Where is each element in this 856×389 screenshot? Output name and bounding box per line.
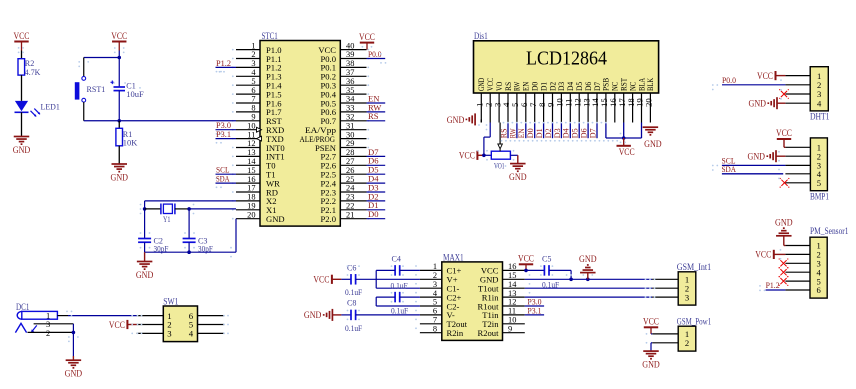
svg-text:32: 32 [346, 113, 354, 122]
svg-text:LCD12864: LCD12864 [526, 49, 607, 70]
svg-text:8: 8 [433, 324, 437, 333]
svg-text:GND: GND [775, 217, 793, 227]
svg-text:1: 1 [251, 41, 255, 50]
svg-text:D0: D0 [531, 82, 540, 91]
svg-text:3: 3 [433, 280, 437, 289]
svg-text:VO: VO [495, 82, 504, 91]
svg-text:9: 9 [251, 113, 255, 122]
svg-text:P3.1: P3.1 [216, 129, 231, 139]
svg-text:P1.2: P1.2 [766, 280, 780, 290]
svg-text:16: 16 [508, 262, 516, 271]
svg-text:10K: 10K [123, 138, 138, 148]
svg-text:24: 24 [346, 184, 355, 193]
svg-text:SDA: SDA [722, 164, 737, 174]
svg-text:BLK: BLK [646, 78, 655, 91]
svg-text:39: 39 [346, 50, 354, 59]
svg-text:33: 33 [346, 104, 354, 113]
svg-text:3: 3 [46, 320, 50, 329]
svg-text:15: 15 [508, 271, 516, 280]
svg-text:26: 26 [346, 166, 354, 175]
svg-text:21: 21 [346, 210, 354, 219]
svg-text:6: 6 [251, 86, 255, 95]
svg-text:2: 2 [433, 271, 437, 280]
svg-text:VCC: VCC [486, 77, 495, 91]
svg-text:28: 28 [346, 148, 354, 157]
svg-text:9: 9 [508, 324, 512, 333]
svg-text:Dis1: Dis1 [474, 31, 488, 41]
svg-text:DHT1: DHT1 [810, 112, 830, 122]
svg-text:D0: D0 [368, 209, 379, 219]
svg-text:D7: D7 [593, 82, 602, 91]
svg-text:22: 22 [346, 202, 354, 211]
svg-text:7: 7 [433, 316, 437, 325]
svg-text:RW: RW [513, 82, 522, 91]
svg-text:17: 17 [247, 184, 255, 193]
svg-text:GND: GND [644, 139, 662, 149]
svg-text:0.1uF: 0.1uF [391, 306, 408, 316]
svg-text:NC: NC [628, 81, 637, 91]
svg-text:GND: GND [579, 254, 597, 264]
svg-text:37: 37 [346, 68, 354, 77]
svg-text:D5: D5 [575, 82, 584, 91]
svg-text:12: 12 [508, 298, 516, 307]
svg-text:4.7K: 4.7K [25, 67, 41, 77]
svg-text:27: 27 [346, 157, 354, 166]
svg-text:6: 6 [433, 307, 437, 316]
svg-text:3: 3 [167, 329, 172, 339]
svg-text:GND: GND [642, 360, 660, 370]
svg-text:C8: C8 [347, 297, 357, 307]
svg-text:6: 6 [816, 285, 821, 295]
svg-text:SW1: SW1 [163, 296, 178, 306]
svg-text:4: 4 [189, 329, 194, 339]
svg-text:1: 1 [433, 262, 437, 271]
svg-text:D7: D7 [587, 128, 597, 138]
svg-text:15: 15 [247, 166, 255, 175]
svg-text:SDA: SDA [216, 174, 230, 184]
svg-text:0.1uF: 0.1uF [345, 323, 362, 333]
svg-text:3: 3 [685, 292, 689, 302]
svg-text:VCC: VCC [14, 31, 30, 41]
svg-text:3: 3 [251, 59, 255, 68]
svg-text:D3: D3 [557, 82, 566, 91]
svg-text:BMP1: BMP1 [810, 191, 829, 201]
svg-text:14: 14 [508, 280, 517, 289]
svg-text:31: 31 [346, 121, 354, 130]
svg-text:VCC: VCC [518, 254, 534, 264]
svg-text:D2: D2 [548, 82, 557, 91]
svg-text:VCC: VCC [757, 71, 773, 81]
svg-text:P0.0: P0.0 [722, 75, 736, 85]
svg-text:GND: GND [447, 115, 465, 125]
svg-text:16: 16 [247, 175, 255, 184]
svg-text:2: 2 [685, 338, 689, 348]
svg-text:C5: C5 [542, 253, 552, 263]
svg-text:PM_Sensor1: PM_Sensor1 [810, 226, 849, 236]
svg-text:8: 8 [251, 104, 255, 113]
svg-text:12: 12 [247, 139, 255, 148]
svg-text:C4: C4 [392, 253, 402, 263]
svg-text:EN: EN [522, 82, 531, 91]
svg-text:RST: RST [620, 78, 629, 91]
svg-text:36: 36 [346, 77, 354, 86]
svg-text:PSB: PSB [602, 77, 611, 91]
svg-text:5: 5 [817, 178, 821, 188]
svg-text:RST1: RST1 [87, 84, 106, 94]
svg-text:VCC: VCC [313, 275, 329, 285]
svg-text:5: 5 [433, 298, 437, 307]
svg-text:11: 11 [508, 307, 516, 316]
svg-text:VCC: VCC [643, 317, 659, 327]
svg-text:20: 20 [644, 98, 654, 107]
svg-text:GND: GND [477, 78, 486, 91]
svg-text:RS: RS [504, 81, 513, 91]
svg-text:29: 29 [346, 139, 354, 148]
svg-text:GND: GND [304, 310, 322, 320]
svg-text:10: 10 [247, 121, 255, 130]
svg-text:RS: RS [368, 111, 379, 121]
svg-text:30: 30 [346, 130, 354, 139]
svg-text:BLA: BLA [637, 78, 646, 91]
svg-text:GND: GND [749, 99, 767, 109]
svg-text:VCC: VCC [459, 151, 475, 161]
svg-text:VCC: VCC [776, 128, 792, 138]
svg-text:14: 14 [247, 157, 256, 166]
svg-text:D4: D4 [566, 81, 575, 91]
svg-text:R2in: R2in [447, 328, 464, 338]
svg-text:VCC: VCC [359, 32, 375, 42]
svg-text:P0.0: P0.0 [368, 49, 382, 59]
svg-text:20: 20 [247, 210, 255, 219]
svg-text:19: 19 [247, 202, 255, 211]
svg-text:GND: GND [65, 369, 83, 379]
svg-text:P2.0: P2.0 [320, 214, 336, 224]
svg-text:D1: D1 [539, 82, 548, 91]
svg-text:13: 13 [508, 289, 516, 298]
svg-text:35: 35 [346, 86, 354, 95]
svg-text:GND: GND [13, 145, 31, 155]
svg-text:40: 40 [346, 41, 354, 50]
svg-text:7: 7 [251, 95, 255, 104]
svg-text:GND: GND [136, 270, 154, 280]
svg-text:34: 34 [346, 95, 355, 104]
svg-text:4: 4 [817, 98, 822, 108]
svg-text:VCC: VCC [619, 147, 635, 157]
svg-text:MAX1: MAX1 [443, 252, 464, 262]
svg-text:C6: C6 [347, 263, 357, 273]
svg-text:2: 2 [46, 329, 50, 338]
svg-text:11: 11 [247, 130, 255, 139]
svg-text:LED1: LED1 [41, 101, 60, 111]
svg-text:VCC: VCC [109, 320, 125, 330]
svg-text:10uF: 10uF [126, 89, 144, 99]
svg-text:GND: GND [266, 214, 285, 224]
svg-text:13: 13 [247, 148, 255, 157]
svg-text:38: 38 [346, 59, 354, 68]
svg-text:GSM_Int1: GSM_Int1 [677, 262, 712, 272]
svg-text:0.1uF: 0.1uF [391, 281, 408, 291]
svg-text:5: 5 [251, 77, 255, 86]
svg-text:18: 18 [247, 193, 255, 202]
svg-text:Y1: Y1 [163, 214, 171, 224]
svg-text:R2out: R2out [477, 328, 499, 338]
svg-text:23: 23 [346, 193, 354, 202]
svg-text:GND: GND [111, 173, 129, 183]
svg-text:VCC: VCC [111, 31, 127, 41]
svg-text:STC1: STC1 [262, 31, 279, 41]
svg-text:GND: GND [748, 152, 766, 162]
svg-text:10: 10 [508, 316, 516, 325]
svg-text:P1.2: P1.2 [216, 58, 231, 68]
svg-text:0.1uF: 0.1uF [345, 287, 362, 297]
svg-text:VCC: VCC [755, 250, 771, 260]
svg-text:DC1: DC1 [16, 302, 30, 312]
svg-text:2: 2 [251, 50, 255, 59]
svg-text:25: 25 [346, 175, 354, 184]
svg-text:VO1: VO1 [494, 161, 505, 171]
svg-text:GSM_Pow1: GSM_Pow1 [677, 317, 712, 327]
svg-text:D6: D6 [584, 82, 593, 91]
svg-text:NC: NC [611, 81, 620, 91]
svg-text:GND: GND [509, 172, 527, 182]
